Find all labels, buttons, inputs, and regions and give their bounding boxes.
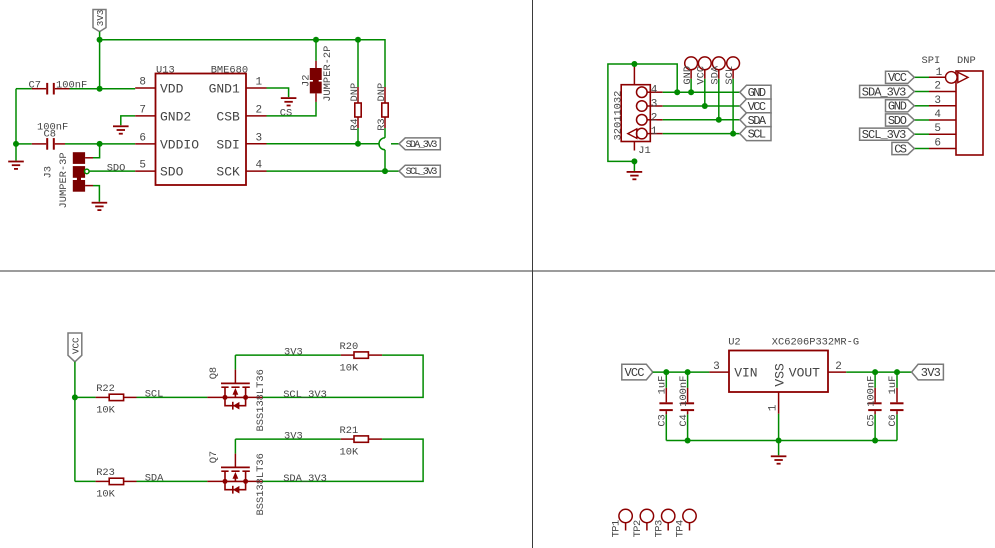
label VCC — [740, 99, 771, 114]
svg-text:4: 4 — [934, 109, 941, 121]
svg-text:7: 7 — [139, 104, 146, 116]
label GND — [740, 85, 771, 100]
pin header pad SCL — [724, 57, 739, 137]
wire C5 bottom — [874, 414, 876, 440]
capacitor C6 — [887, 372, 903, 427]
wire VDD pin8 — [100, 88, 136, 90]
svg-text:SCL: SCL — [724, 66, 736, 85]
svg-text:VCC: VCC — [696, 66, 708, 85]
wire SCL net — [663, 133, 740, 135]
pin 1 marker circle — [946, 72, 958, 84]
svg-text:SDA_3V3: SDA_3V3 — [862, 85, 907, 99]
node C8 left junction — [13, 141, 19, 147]
pin header pad SDA — [710, 57, 725, 123]
wire VCC to VIN — [653, 371, 710, 373]
svg-text:10K: 10K — [96, 488, 115, 500]
node junction C3 top — [663, 369, 669, 375]
svg-text:3V3: 3V3 — [95, 10, 106, 27]
label 3V3 — [912, 364, 944, 380]
svg-text:SDA: SDA — [145, 473, 164, 485]
node VDD junction — [97, 86, 103, 92]
resistor R3 — [376, 83, 388, 131]
svg-text:BSS138LT36: BSS138LT36 — [255, 369, 267, 431]
svg-text:JUMPER-2P: JUMPER-2P — [322, 46, 334, 102]
svg-text:TP3: TP3 — [653, 520, 665, 538]
svg-text:SDA: SDA — [748, 114, 767, 128]
label VCC right — [886, 71, 915, 85]
ground U2 — [771, 441, 787, 464]
svg-text:TP1: TP1 — [611, 520, 623, 538]
wire J3 pin3 to ground — [93, 186, 99, 202]
svg-text:5: 5 — [934, 123, 941, 135]
capacitor C8 — [16, 122, 68, 150]
svg-text:1: 1 — [767, 404, 779, 411]
connector J1 — [613, 65, 663, 157]
wire R3 down with hop over SDI — [384, 128, 386, 138]
wire SDO from J3 — [89, 170, 135, 172]
svg-text:J3: J3 — [43, 166, 55, 178]
jumper J2 — [301, 40, 335, 102]
svg-text:BME680: BME680 — [211, 65, 248, 77]
capacitor C5 — [865, 372, 881, 427]
svg-text:4: 4 — [651, 85, 658, 97]
svg-text:Q7: Q7 — [208, 451, 220, 463]
label SCL_3V3 — [399, 165, 440, 178]
wire VSS pin1 — [778, 414, 780, 441]
svg-text:3V3: 3V3 — [284, 430, 303, 442]
svg-text:CS: CS — [280, 107, 292, 119]
wire SDI net — [267, 143, 380, 145]
node J1 bottom junction — [631, 158, 637, 164]
label SDA — [740, 113, 771, 128]
wire 3V3 stem — [99, 32, 101, 89]
wire SCL_3V3 to SPI5 — [914, 133, 929, 135]
svg-text:SDA_3V3: SDA_3V3 — [406, 140, 438, 151]
svg-text:10K: 10K — [340, 362, 359, 374]
svg-text:3V3: 3V3 — [921, 366, 941, 380]
wire VCC net — [663, 105, 740, 107]
svg-text:C7: C7 — [29, 80, 41, 92]
svg-text:R4: R4 — [349, 118, 361, 130]
transistor Q8 BSS138LT36 — [207, 355, 267, 431]
jumper J3 — [43, 152, 94, 208]
node VDDIO junction — [97, 141, 103, 147]
wire C4 bottom — [687, 414, 689, 440]
svg-text:3: 3 — [934, 95, 941, 107]
svg-text:32011032: 32011032 — [613, 91, 625, 141]
test point TP1 — [611, 509, 633, 537]
svg-text:GND2: GND2 — [160, 110, 191, 125]
svg-text:C8: C8 — [44, 129, 56, 141]
resistor R22 — [75, 383, 137, 417]
node junction C6 top — [894, 369, 900, 375]
capacitor C4 — [678, 372, 694, 427]
svg-text:U2: U2 — [728, 336, 740, 348]
test point TP4 — [675, 509, 697, 537]
label GND right — [886, 100, 915, 114]
svg-text:R3: R3 — [376, 118, 388, 130]
svg-text:1: 1 — [256, 77, 263, 89]
svg-text:1uF: 1uF — [887, 376, 899, 395]
wire left vertical C7-C8 — [15, 89, 17, 144]
svg-text:100nF: 100nF — [56, 80, 87, 92]
svg-text:SCK: SCK — [216, 165, 240, 180]
node SDI junction R4 — [355, 141, 361, 147]
svg-text:VCC: VCC — [625, 366, 645, 380]
ground left — [8, 144, 24, 169]
svg-text:R21: R21 — [340, 425, 359, 437]
wire SDO to SPI4 — [914, 119, 929, 121]
wire 3V3 top rail — [100, 40, 385, 87]
resistor R4 — [349, 83, 361, 131]
svg-text:SCL: SCL — [748, 128, 767, 142]
label SCL — [740, 127, 771, 142]
svg-text:VCC: VCC — [748, 100, 767, 114]
svg-text:100nF: 100nF — [865, 376, 877, 407]
svg-text:SDO: SDO — [160, 165, 184, 180]
svg-text:JUMPER-3P: JUMPER-3P — [58, 152, 70, 208]
wire SDA_3V3 to SPI2 — [914, 91, 929, 93]
svg-text:GND1: GND1 — [209, 82, 240, 97]
svg-text:100nF: 100nF — [678, 376, 690, 407]
svg-text:5: 5 — [139, 160, 146, 172]
svg-text:Q8: Q8 — [208, 367, 220, 379]
svg-text:GND: GND — [682, 66, 694, 85]
wire GND net — [663, 91, 740, 93]
svg-text:BSS138LT36: BSS138LT36 — [255, 453, 267, 515]
node rail junction C4 — [685, 438, 691, 444]
svg-text:1uF: 1uF — [657, 376, 669, 395]
svg-text:DNP: DNP — [349, 83, 361, 102]
svg-text:DNP: DNP — [957, 55, 976, 67]
pin header pad GND — [682, 57, 697, 95]
svg-text:SPI: SPI — [922, 55, 941, 67]
label VCC — [622, 364, 653, 380]
svg-text:10K: 10K — [96, 404, 115, 416]
transistor Q7 BSS138LT36 — [207, 439, 267, 515]
node corner junction GND — [674, 89, 680, 95]
capacitor C3 — [657, 372, 673, 427]
svg-text:SDA: SDA — [710, 65, 722, 84]
resistor R23 — [75, 467, 137, 501]
svg-text:SDO: SDO — [888, 114, 907, 128]
wire SCK net — [267, 170, 400, 172]
wire center drop to J3 — [93, 144, 100, 158]
node SCK junction R3 — [382, 168, 388, 174]
svg-text:TP2: TP2 — [632, 520, 644, 538]
node 3V3 junction — [97, 37, 103, 43]
wire SDA net — [137, 480, 208, 482]
wire VCC vertical — [74, 362, 76, 482]
node junction J2 top — [313, 37, 319, 43]
wire SCL net — [137, 396, 208, 398]
svg-text:SDA_3V3: SDA_3V3 — [283, 473, 327, 485]
svg-text:VCC: VCC — [71, 337, 82, 354]
ground GND1 — [281, 98, 297, 105]
wire GND to SPI3 — [914, 105, 929, 107]
test point TP2 — [632, 509, 654, 537]
node junction C5 top — [872, 369, 878, 375]
wire VOUT to 3V3 — [846, 371, 911, 373]
label SDO right — [886, 114, 915, 128]
wire R4 to SDI — [357, 128, 359, 144]
wire GND2 to ground — [121, 116, 135, 125]
wire 3V3 rail upper — [235, 354, 340, 356]
wire SCL_3V3 loop — [263, 355, 424, 397]
node J1 top junction — [631, 61, 637, 67]
svg-text:DNP: DNP — [376, 83, 388, 102]
wire VCC to SPI1 — [914, 76, 929, 78]
svg-text:2: 2 — [835, 361, 842, 373]
wire CS to SPI6 — [914, 148, 929, 150]
svg-text:GND: GND — [748, 86, 767, 100]
wire VDDIO pin6 — [100, 143, 136, 145]
svg-text:VOUT: VOUT — [789, 366, 820, 381]
svg-text:2: 2 — [934, 81, 941, 93]
op-amp U13 BME680 — [135, 64, 266, 185]
svg-text:R20: R20 — [340, 341, 359, 353]
node junction C4 top — [685, 369, 691, 375]
svg-text:VSS: VSS — [772, 363, 787, 387]
wire C8 to VDDIO junction — [65, 143, 100, 145]
svg-text:2: 2 — [256, 104, 263, 116]
ground J3 — [92, 203, 108, 210]
svg-text:3: 3 — [256, 132, 263, 144]
wire J1 top loop — [608, 64, 635, 161]
svg-text:SCL_3V3: SCL_3V3 — [862, 128, 907, 142]
wire CSB to J2 — [267, 102, 317, 116]
wire GND1 to ground — [267, 88, 289, 97]
connector SPI header — [922, 55, 984, 155]
ground J1 — [627, 161, 643, 179]
svg-text:U13: U13 — [156, 64, 175, 76]
svg-text:8: 8 — [139, 77, 146, 89]
svg-text:R23: R23 — [96, 467, 115, 479]
svg-text:TP4: TP4 — [675, 520, 687, 538]
svg-text:SDO: SDO — [107, 162, 126, 174]
supply VCC — [68, 333, 82, 362]
svg-text:XC6206P332MR-G: XC6206P332MR-G — [772, 337, 859, 349]
svg-text:VDD: VDD — [160, 82, 184, 97]
label SDA_3V3 — [399, 138, 440, 151]
resistor R21 — [340, 425, 383, 459]
divider horizontal — [0, 270, 995, 272]
supply 3V3 — [93, 10, 106, 32]
wire ground rail — [666, 440, 897, 442]
svg-text:SDI: SDI — [216, 137, 239, 152]
wire R4 drop — [357, 40, 359, 87]
svg-text:3V3: 3V3 — [284, 346, 303, 358]
svg-text:6: 6 — [139, 132, 146, 144]
svg-text:SCL_3V3: SCL_3V3 — [283, 389, 327, 401]
svg-text:VCC: VCC — [888, 71, 907, 85]
svg-text:CSB: CSB — [216, 110, 240, 125]
svg-text:SCL_3V3: SCL_3V3 — [406, 167, 438, 178]
svg-text:1: 1 — [651, 126, 658, 138]
svg-text:3: 3 — [713, 361, 720, 373]
node VCC junction — [72, 394, 78, 400]
svg-text:CS: CS — [894, 142, 907, 156]
test point TP3 — [653, 509, 675, 537]
svg-text:R22: R22 — [96, 383, 115, 395]
divider vertical — [532, 0, 534, 548]
wire SDA net — [663, 119, 740, 121]
label CS right — [892, 142, 914, 156]
svg-text:10K: 10K — [340, 446, 359, 458]
svg-text:J2: J2 — [301, 75, 313, 87]
wire C6 bottom — [896, 414, 898, 440]
node rail junction C5 — [872, 438, 878, 444]
label SCL_3V3 right — [860, 128, 915, 142]
pin header pad VCC — [696, 57, 711, 109]
node rail junction VSS — [776, 438, 782, 444]
capacitor C7 — [16, 80, 87, 95]
ground GND2 — [113, 126, 129, 133]
resistor R20 — [340, 341, 383, 375]
svg-text:2: 2 — [651, 112, 658, 124]
svg-text:3: 3 — [651, 99, 658, 111]
svg-text:SCL: SCL — [145, 389, 164, 401]
node junction R4 top — [355, 37, 361, 43]
svg-text:J1: J1 — [638, 145, 650, 157]
wire 3V3 rail lower — [235, 438, 340, 440]
wire C3 bottom — [665, 414, 667, 440]
wire SDA_3V3 loop — [263, 439, 424, 481]
wire C7 to VDD junction — [70, 88, 100, 90]
label SDA_3V3 right — [860, 85, 915, 99]
svg-text:4: 4 — [256, 160, 263, 172]
svg-text:VIN: VIN — [734, 366, 757, 381]
svg-text:VDDIO: VDDIO — [160, 138, 199, 153]
svg-text:6: 6 — [934, 138, 941, 150]
op-amp U2 XC6206 — [709, 336, 859, 414]
svg-text:GND: GND — [888, 100, 907, 114]
